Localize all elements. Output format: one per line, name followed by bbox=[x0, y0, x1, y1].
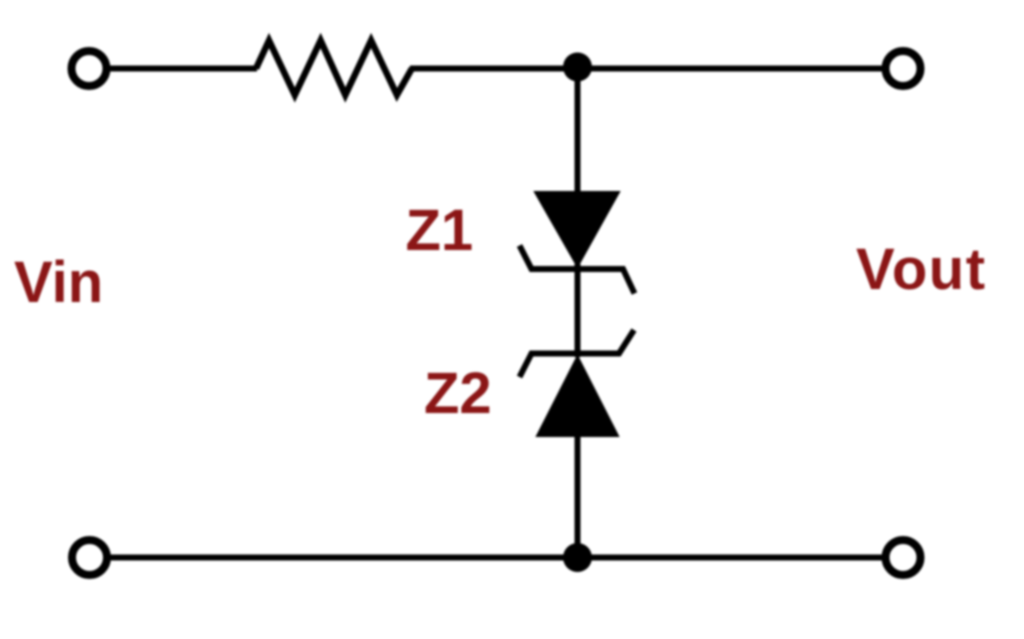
zener diode Z1 triangle (cathode down) bbox=[535, 192, 619, 267]
svg-text:Z1: Z1 bbox=[406, 198, 474, 263]
junction node top bbox=[563, 53, 592, 82]
wire top-right segment bbox=[410, 66, 887, 72]
svg-text:Vin: Vin bbox=[14, 250, 103, 315]
terminal top-left bbox=[72, 51, 107, 86]
svg-text:Vout: Vout bbox=[856, 237, 987, 302]
wire bottom segment bbox=[107, 555, 887, 561]
wire between zeners bbox=[575, 264, 581, 357]
wire branch upper (node to Z1) bbox=[575, 68, 581, 196]
resistor R1 bbox=[256, 41, 412, 96]
terminal bottom-right bbox=[886, 540, 921, 575]
svg-text:Z2: Z2 bbox=[424, 361, 492, 426]
zener diode Z1 cathode bar with hooks bbox=[520, 246, 635, 294]
junction node bottom bbox=[563, 543, 592, 572]
wire branch lower (Z2 to node) bbox=[575, 434, 581, 558]
terminal bottom-left bbox=[72, 540, 107, 575]
wire top-left segment bbox=[106, 66, 257, 72]
terminal top-right bbox=[886, 51, 921, 86]
zener diode Z2 cathode bar with hooks bbox=[520, 330, 635, 377]
zener diode Z2 triangle (cathode up) bbox=[537, 357, 618, 437]
